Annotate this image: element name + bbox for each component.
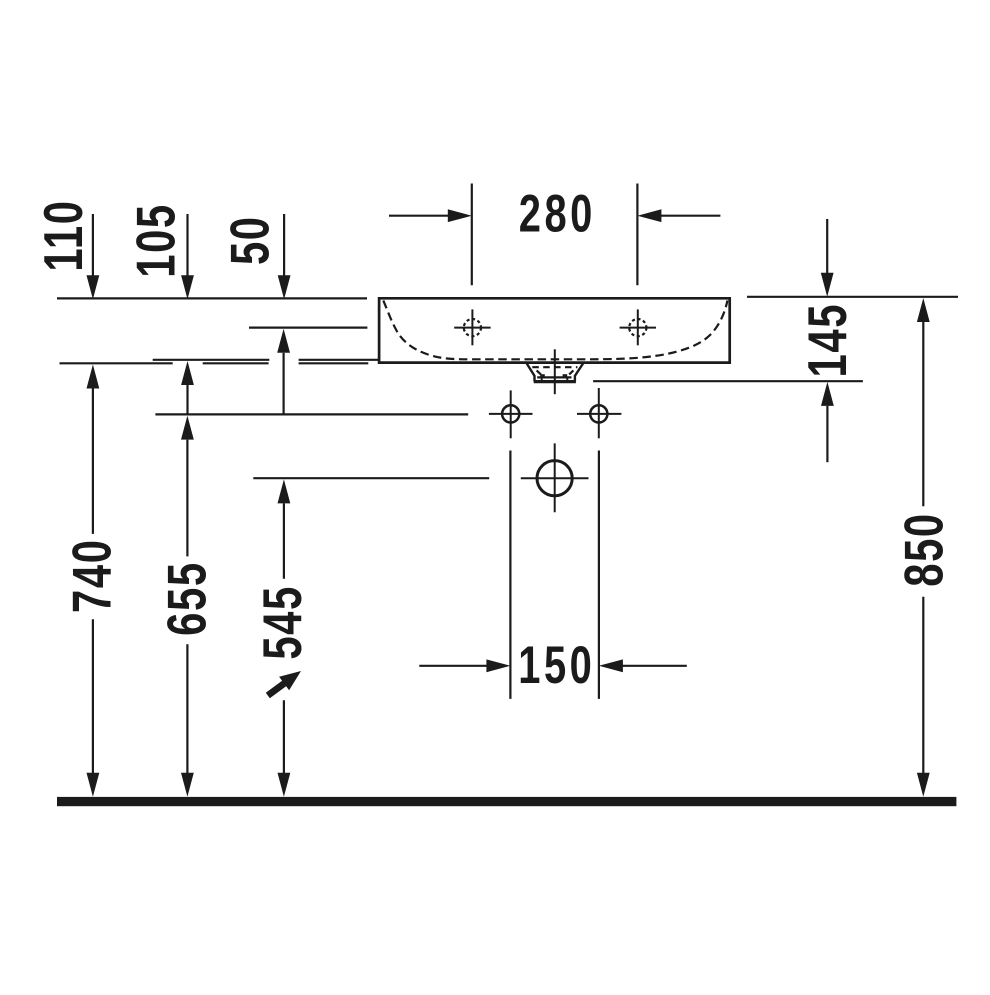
dim 50 arrow (283, 214, 285, 276)
dim 150 extension right (598, 451, 600, 699)
dim 280 right arrow (660, 215, 720, 217)
tap hole left (454, 309, 490, 345)
dim 150 extension left (509, 451, 511, 699)
svg-text:110: 110 (34, 199, 95, 271)
svg-text:145: 145 (797, 303, 858, 378)
tap hole right (620, 309, 656, 345)
dim 150 right arrow (622, 665, 687, 667)
centre line of drain (554, 349, 556, 394)
label 150 (518, 636, 595, 695)
ground line (57, 797, 956, 806)
svg-text:740: 740 (62, 538, 123, 613)
145 lower reference line (593, 380, 863, 382)
dim 280 extension right (636, 184, 638, 286)
mounting hole right (577, 388, 621, 438)
svg-text:150: 150 (518, 636, 595, 695)
svg-text:850: 850 (894, 512, 955, 587)
tap hole axis reference line (249, 327, 367, 329)
655 reference line (155, 413, 468, 415)
top reference line right (747, 296, 958, 298)
dim 105 lower arrow (181, 361, 194, 385)
dim 850 (917, 298, 930, 322)
dim 110 arrow (92, 214, 94, 276)
svg-text:50: 50 (220, 215, 281, 265)
top reference line left (57, 297, 367, 299)
dim 545 (278, 479, 291, 503)
dim 740 (87, 365, 100, 389)
dim 280 extension left (471, 184, 473, 286)
545 reference line (253, 477, 489, 479)
waste circle (537, 461, 572, 496)
105 reference line (153, 359, 270, 361)
dim 655 (181, 416, 194, 440)
dim 145 upper arrow (826, 219, 828, 274)
svg-text:655: 655 (157, 561, 218, 636)
545 slope arrow (268, 683, 286, 696)
svg-text:105: 105 (126, 203, 187, 278)
basin bowl dashed curve (383, 301, 727, 360)
110 reference line (203, 362, 269, 364)
dim 150 left arrow (419, 665, 487, 667)
svg-text:280: 280 (519, 184, 596, 243)
mounting hole left (489, 390, 533, 438)
drain outlet (527, 364, 583, 382)
svg-text:545: 545 (253, 585, 314, 660)
basin outline (379, 298, 730, 362)
dim 50 lower arrow (277, 329, 290, 353)
dim 145 lower arrow (821, 382, 834, 406)
dim 105 arrow (186, 214, 188, 276)
dim 280 left arrow (389, 215, 450, 217)
label 280 (519, 184, 596, 243)
centre line above waste circle (554, 443, 556, 512)
740 reference line (60, 362, 173, 364)
